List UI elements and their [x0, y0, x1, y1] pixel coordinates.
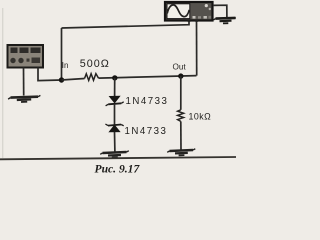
sine trace on screen [167, 5, 189, 17]
ground (oscilloscope) [214, 18, 236, 24]
main wire In to Out [62, 76, 197, 80]
zener diode D2 1N4733 [105, 124, 123, 132]
svg-text:Out: Out [173, 63, 187, 72]
node mid (diode branch) [112, 75, 117, 80]
wire oscilloscope down to Out rail [196, 21, 198, 76]
wire oscilloscope to top-right ground [213, 5, 227, 17]
wire generator to ground [23, 68, 25, 96]
svg-text:Рис. 9.17: Рис. 9.17 [95, 162, 141, 175]
wire In node up [61, 28, 63, 80]
caption rule [0, 157, 236, 159]
scope knobs [205, 4, 208, 7]
function generator XFG1 [8, 45, 44, 68]
wire node to D1 [114, 78, 116, 97]
svg-text:In: In [62, 61, 69, 70]
wire top to oscilloscope [62, 20, 190, 29]
wire Out node down to R2 [180, 76, 182, 110]
ground (diodes) [100, 151, 129, 158]
wire R2 to ground [180, 121, 182, 150]
resistor R2 10k (vertical) [178, 110, 184, 122]
wire D1 to D2 [114, 104, 116, 125]
scope terminals [188, 20, 191, 22]
paper background [0, 0, 236, 181]
resistor R1 500Ohm [85, 74, 99, 81]
ground (generator) [8, 95, 40, 102]
wire generator to In node [38, 68, 62, 81]
node Out [178, 73, 183, 78]
wire D2 to ground [114, 132, 116, 152]
svg-text:500Ω: 500Ω [80, 58, 110, 70]
svg-text:1N4733: 1N4733 [125, 126, 168, 137]
svg-text:1N4733: 1N4733 [126, 96, 169, 107]
node In [59, 77, 64, 82]
oscilloscope U1 [165, 2, 213, 22]
svg-text:10kΩ: 10kΩ [189, 112, 212, 122]
zener diode D1 1N4733 [106, 96, 124, 106]
ground (R2) [167, 149, 195, 156]
